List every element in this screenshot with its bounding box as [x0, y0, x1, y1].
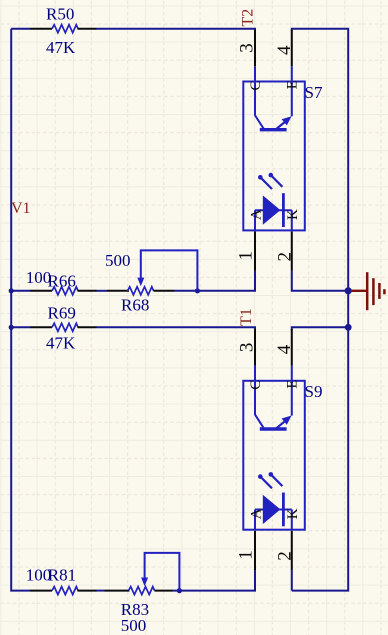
svg-text:500: 500 — [105, 251, 131, 270]
svg-text:S7: S7 — [305, 83, 323, 102]
svg-text:R50: R50 — [46, 4, 74, 23]
svg-text:47K: 47K — [46, 334, 76, 353]
svg-text:S9: S9 — [305, 382, 323, 401]
svg-text:R81: R81 — [48, 565, 76, 584]
svg-text:T1: T1 — [238, 308, 255, 326]
svg-text:500: 500 — [121, 616, 147, 635]
svg-text:R69: R69 — [48, 304, 76, 323]
svg-text:47K: 47K — [46, 38, 76, 57]
svg-text:V1: V1 — [11, 200, 31, 217]
svg-text:R66: R66 — [48, 272, 76, 291]
svg-text:T2: T2 — [239, 9, 256, 27]
svg-text:R68: R68 — [121, 296, 149, 315]
